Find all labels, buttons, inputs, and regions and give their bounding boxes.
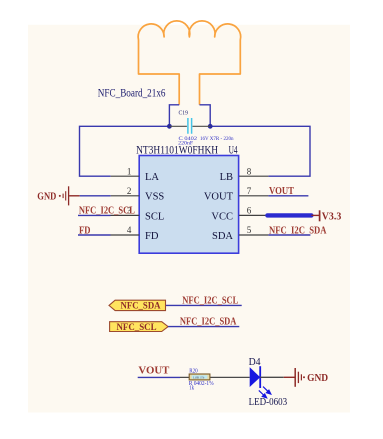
port NFC_SCL — [110, 322, 169, 332]
svg-text:1k: 1k — [189, 386, 194, 392]
svg-text:4: 4 — [127, 225, 132, 235]
wire antenna right drop — [200, 105, 211, 127]
svg-text:NFC_SCL: NFC_SCL — [117, 323, 157, 333]
schematic canvas — [28, 25, 350, 413]
wire vout led — [138, 376, 180, 378]
svg-text:NFC_Board_21x6: NFC_Board_21x6 — [98, 87, 166, 99]
svg-text:NFC_I2C_SCL: NFC_I2C_SCL — [182, 295, 238, 306]
svg-text:VSS: VSS — [145, 192, 164, 203]
svg-text:2: 2 — [127, 186, 132, 196]
port NFC_SDA — [109, 300, 166, 310]
capacitor C19 pins — [169, 125, 210, 127]
capacitor C19 plates — [188, 118, 192, 134]
pin 5 SDA — [239, 234, 268, 236]
svg-text:LA: LA — [145, 172, 159, 183]
junction left — [167, 124, 172, 129]
svg-text:FD: FD — [145, 231, 159, 242]
wire port1 — [166, 304, 242, 306]
svg-text:VOUT: VOUT — [138, 365, 169, 376]
svg-text:16V X7R - 220n: 16V X7R - 220n — [200, 136, 234, 142]
svg-text:R20: R20 — [189, 369, 198, 375]
wire port2 — [168, 326, 239, 328]
pin 7 VOUT — [239, 195, 268, 197]
wire pin2 — [80, 195, 111, 197]
ferrite bead FB on pin6 — [267, 213, 311, 217]
svg-text:5: 5 — [247, 225, 252, 235]
svg-text:LB: LB — [220, 172, 233, 183]
antenna L (NFC loop) — [138, 21, 241, 105]
op IC U4 body — [139, 156, 238, 254]
LED D4 triangle — [250, 367, 261, 387]
svg-text:SCL: SCL — [145, 211, 164, 222]
svg-text:VOUT: VOUT — [204, 192, 234, 203]
pin 6 VCC — [239, 214, 267, 216]
svg-text:SDA: SDA — [212, 231, 233, 242]
svg-text:8: 8 — [247, 166, 252, 176]
svg-text:NFC_I2C_SDA: NFC_I2C_SDA — [180, 317, 237, 328]
svg-text:LED-0603: LED-0603 — [249, 397, 288, 408]
wire pin3 — [78, 214, 111, 216]
svg-text:C19: C19 — [179, 110, 189, 117]
svg-text:U4: U4 — [229, 145, 238, 157]
pin 1 LA — [111, 175, 140, 177]
power port V3.3 — [311, 210, 319, 221]
svg-text:V3.3: V3.3 — [322, 211, 342, 223]
ground GND at LED — [284, 368, 305, 387]
svg-text:GND: GND — [307, 373, 328, 384]
pin 2 VSS — [111, 195, 140, 197]
svg-text:7: 7 — [247, 186, 252, 196]
resistor R20 pins — [180, 376, 250, 378]
svg-text:6: 6 — [247, 206, 252, 216]
svg-text:NFC_SDA: NFC_SDA — [121, 302, 161, 312]
junction right — [208, 124, 213, 129]
LED D4 cathode bar — [259, 366, 261, 388]
svg-text:NT3H1101W0FHKH: NT3H1101W0FHKH — [136, 145, 218, 157]
LED right pin — [260, 376, 284, 378]
pin 4 FD — [111, 234, 140, 236]
wire pin8 to top rail (right) — [210, 126, 310, 176]
svg-text:1.0K 1%: 1.0K 1% — [193, 375, 205, 379]
wire pin5 — [268, 234, 310, 236]
ground GND at pin2 — [59, 186, 80, 205]
pin 3 SCL — [111, 214, 140, 216]
wire pin4 — [78, 234, 111, 236]
LED D4 emission arrows — [259, 387, 271, 398]
svg-text:VCC: VCC — [211, 211, 233, 222]
wire pin1 to top rail (left) — [80, 126, 170, 176]
svg-text:1: 1 — [127, 166, 132, 176]
resistor R20 body — [189, 374, 210, 380]
wire pin7 — [268, 195, 308, 197]
wire antenna left drop — [169, 105, 179, 127]
pin 8 LB — [239, 175, 268, 177]
svg-text:GND: GND — [37, 191, 56, 202]
